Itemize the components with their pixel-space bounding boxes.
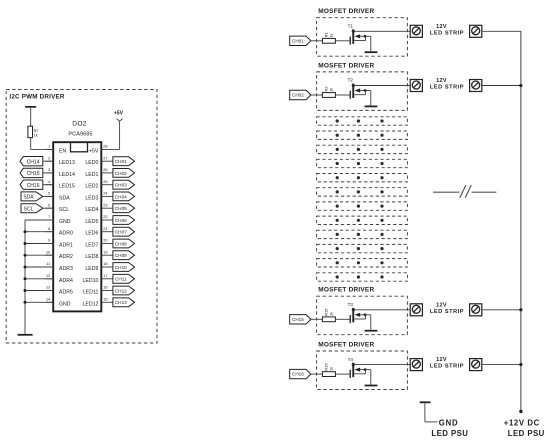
wire: +5V to pin 28 [101,121,119,149]
connector CH07 [113,227,135,236]
wire: pin 7 GND to bus corner [25,219,53,221]
pin 7 stub wire [45,219,53,221]
pin 8 stub wire [45,231,53,233]
pin 25 stub wire [101,184,113,186]
value label R7 1k [34,129,39,137]
transistor T4 (N-MOSFET) [348,357,367,378]
pin 27 stub wire [101,160,113,162]
wire: CH16 to resistor R16 [311,373,323,375]
connector CH16 [20,180,43,189]
svg-text:LED9: LED9 [85,266,98,272]
ellipsis dots (omitted block 9) [336,233,384,236]
pin 20 stub wire [101,243,113,245]
svg-text:2: 2 [48,156,50,160]
svg-text:SCL: SCL [24,206,34,212]
svg-text:9: 9 [48,239,50,243]
svg-text:27: 27 [103,156,107,160]
wire: source of T4 to ground [365,370,371,385]
connector CH05 [113,204,135,213]
ground terminal (LED PSU GND) [420,401,431,403]
wire: CH16 to pin 4 [43,184,53,186]
pin 11 stub wire [45,266,53,268]
svg-text:ADR3: ADR3 [59,266,73,272]
connector CH11 [113,274,135,283]
svg-text:12V: 12V [436,357,447,363]
screw terminal (+12V, T1) [470,25,482,37]
svg-text:1k: 1k [330,367,334,371]
IC notch [71,142,88,152]
ground (T2 source) [365,106,378,108]
label 12V LED STRIP (T3) [430,302,464,315]
ellipsis dots (omitted block 4) [336,162,384,165]
svg-text:ADR2: ADR2 [59,254,73,260]
svg-text:LED7: LED7 [85,243,98,249]
pin 21 stub wire [101,231,113,233]
svg-text:T4: T4 [348,357,354,362]
connector SCL [21,204,43,213]
enclosure: omitted MOSFET driver block 12 (collapsed) [317,273,408,281]
pin 16 stub wire [101,290,113,292]
ellipsis dots (omitted block 12) [336,275,384,278]
svg-text:6: 6 [48,203,50,207]
svg-text:GND: GND [59,301,71,307]
pin 22 stub wire [101,219,113,221]
label +12V DC LED PSU [504,419,545,438]
wire: bus stub to pin 9 [25,243,53,245]
enclosure: omitted MOSFET driver block 6 (collapsed) [317,188,408,196]
pin 5 stub wire [45,195,53,197]
svg-text:LED PSU: LED PSU [431,429,468,438]
svg-text:MOSFET DRIVER: MOSFET DRIVER [318,8,374,15]
connector CH03 [113,180,135,189]
wire: bus stub to pin 12 [25,278,53,280]
svg-text:SDA: SDA [23,195,34,201]
svg-text:7: 7 [48,215,50,219]
svg-text:LED STRIP: LED STRIP [430,30,464,36]
svg-text:LED PSU: LED PSU [508,429,545,438]
svg-text:LED STRIP: LED STRIP [430,364,464,370]
wire: drain of T4 to output terminal [353,364,410,366]
enclosure: omitted MOSFET driver block 10 (collapsed) [317,244,408,252]
svg-text:21: 21 [103,227,107,231]
ground (address bus) [18,334,33,336]
wire: CH01 to resistor R1 [311,40,323,42]
wire: drain of T1 to output terminal [353,30,410,32]
label 12V LED STRIP (T1) [430,24,464,37]
enclosure: omitted MOSFET driver block 4 (collapsed) [317,159,408,167]
wire: +12V terminal to rail (T4) [482,364,521,366]
wire: resistor R16 to gate of T4 [335,373,350,375]
svg-text:I2C PWM DRIVER: I2C PWM DRIVER [9,93,65,100]
wire: address bus vertical [24,220,26,334]
wire: source of T3 to ground [365,315,371,330]
label 12V LED STRIP (T2) [430,78,464,91]
svg-text:CH04: CH04 [115,194,127,199]
svg-text:LED13: LED13 [59,160,75,166]
svg-text:23: 23 [103,203,107,207]
pin 13 stub wire [45,290,53,292]
svg-text:LED5: LED5 [85,219,98,225]
value label R15 1k [324,308,334,316]
enclosure: MOSFET driver T4 dashed box [317,351,408,390]
svg-text:CH14: CH14 [27,159,40,165]
value label R2 1k [324,86,334,92]
enclosure: omitted MOSFET driver block 3 (collapsed) [317,145,408,153]
enclosure: omitted MOSFET driver block 8 (collapsed) [317,216,408,224]
pin 18 stub wire [101,266,113,268]
svg-text:ADR0: ADR0 [59,231,73,237]
svg-text:14: 14 [46,297,50,301]
connector CH01 [113,157,135,166]
pin 1 stub wire [45,148,53,150]
svg-text:CH16: CH16 [27,183,40,189]
svg-text:11: 11 [46,262,50,266]
enclosure: omitted MOSFET driver block 7 (collapsed) [317,202,408,210]
pin 10 stub wire [45,254,53,256]
node +12V DC (rail end) [519,410,522,413]
ground (T3 source) [365,330,378,332]
enclosure: MOSFET driver T3 dashed box [317,296,408,335]
svg-text:18: 18 [103,262,107,266]
svg-text:LED12: LED12 [83,301,99,307]
pin 24 stub wire [101,195,113,197]
svg-text:LED0: LED0 [85,160,98,166]
ellipsis dots (omitted block 10) [336,247,384,250]
svg-text:17: 17 [103,274,107,278]
ground (T1 source) [365,51,378,53]
svg-text:12: 12 [46,274,50,278]
svg-text:26: 26 [103,168,107,172]
svg-text:CH03: CH03 [115,183,127,188]
wire: PSU GND [425,403,438,422]
ellipsis dots (omitted block 1) [336,119,384,122]
junction: T3 branch on +12V rail [519,308,522,311]
resistor R1 [322,38,335,43]
screw terminal (LED strip -, T2) [410,80,422,92]
connector CH12 [113,286,135,295]
wire: SCL to pin 6 [43,207,53,209]
wire: +12V rail [520,31,522,411]
wire: bus stub to pin 13 [25,290,53,292]
svg-text:LED1: LED1 [85,172,98,178]
svg-text:1k: 1k [330,312,334,316]
wire: bus stub to pin 11 [25,266,53,268]
wire: CH14 to pin 2 [43,160,53,162]
wire: CH15 to resistor R15 [311,318,323,320]
svg-text:CH15: CH15 [292,317,304,322]
pin 3 stub wire [45,172,53,174]
junction at pin 13 bus [24,289,27,292]
wire break symbol (omitted channels) [433,185,496,198]
svg-text:PCA9685: PCA9685 [68,132,92,138]
value label R1 1k [324,32,334,38]
svg-text:R1: R1 [324,32,329,38]
connector CH01 [290,36,311,45]
transistor T3 (N-MOSFET) [348,302,367,323]
svg-text:ADR1: ADR1 [59,243,73,249]
svg-text:4: 4 [48,180,50,184]
svg-text:MOSFET DRIVER: MOSFET DRIVER [318,62,374,69]
connector SDA [21,192,43,201]
wire: CH15 to pin 3 [43,172,53,174]
svg-text:CH08: CH08 [115,241,127,246]
pin 15 stub wire [101,301,113,303]
svg-text:SDA: SDA [59,195,70,201]
svg-text:CH10: CH10 [115,265,127,270]
label GND LED PSU [431,419,468,438]
svg-text:+5V: +5V [114,111,124,117]
svg-text:DO2: DO2 [72,120,86,127]
svg-text:LED STRIP: LED STRIP [430,85,464,91]
svg-text:LED3: LED3 [85,195,98,201]
connector CH02 [113,169,135,178]
power tap bar (R7 pull-up supply) [25,106,36,108]
svg-text:28: 28 [103,145,107,149]
ground (T4 source) [365,385,378,387]
svg-text:CH16: CH16 [292,372,304,377]
ellipsis dots (omitted block 2) [336,134,384,137]
svg-text:13: 13 [46,286,50,290]
enclosure: I2C PWM driver dashed box [6,90,157,344]
wire: +12V terminal to rail (T3) [482,309,521,311]
svg-text:+5V: +5V [89,148,99,154]
svg-text:CH02: CH02 [292,93,304,98]
screw terminal (LED strip -, T3) [410,304,422,316]
connector CH15 [20,168,43,177]
svg-text:CH01: CH01 [115,159,127,164]
svg-text:20: 20 [103,239,107,243]
connector CH09 [113,251,135,260]
junction: T4 branch on +12V rail [519,363,522,366]
connector CH04 [113,192,135,201]
ellipsis dots (omitted block 11) [336,261,384,264]
screw terminal (+12V, T4) [470,359,482,371]
pin 17 stub wire [101,278,113,280]
enclosure: omitted MOSFET driver block 9 (collapsed) [317,230,408,238]
svg-text:25: 25 [103,180,107,184]
svg-text:LED STRIP: LED STRIP [430,309,464,315]
pin 26 stub wire [101,172,113,174]
wire: bus stub to pin 8 [25,231,53,233]
connector CH10 [113,263,135,272]
svg-text:1: 1 [48,145,50,149]
ellipsis dots (omitted block 3) [336,148,384,151]
pin 14 stub wire [45,301,53,303]
resistor R2 [322,93,335,98]
screw terminal (+12V, T2) [470,80,482,92]
resistor R16 [322,372,335,377]
wire: resistor R1 to gate of T1 [335,40,350,42]
svg-text:MOSFET DRIVER: MOSFET DRIVER [318,342,374,349]
enclosure: omitted MOSFET driver block 11 (collapsed) [317,259,408,267]
wire: source of T2 to ground [365,91,371,106]
screw terminal (LED strip -, T4) [410,359,422,371]
+5V supply symbol [114,111,124,122]
svg-text:CH07: CH07 [115,230,127,235]
svg-text:ADR4: ADR4 [59,278,73,284]
transistor T2 (N-MOSFET) [348,78,367,99]
IC DO2 PCA9685 body [53,142,101,311]
wire: supply bar to R7 [30,108,32,127]
svg-text:CH06: CH06 [115,218,127,223]
enclosure: omitted MOSFET driver block 1 (collapsed) [317,117,408,125]
junction at pin 9 bus [24,242,27,245]
svg-text:15: 15 [103,297,107,301]
wire: +12V terminal to rail (T2) [482,85,521,87]
wire: bus stub to pin 14 [25,301,53,303]
svg-text:24: 24 [103,192,107,196]
wire: bus stub to pin 10 [25,254,53,256]
svg-text:12V: 12V [436,24,447,30]
svg-text:CH09: CH09 [115,253,127,258]
svg-text:CH13: CH13 [115,300,127,305]
wire: resistor R15 to gate of T3 [335,318,350,320]
junction at pin 11 bus [24,266,27,269]
svg-text:16: 16 [103,286,107,290]
svg-text:LED4: LED4 [85,207,98,213]
svg-text:CH02: CH02 [115,171,127,176]
resistor R7 [28,126,33,137]
junction at pin 10 bus [24,254,27,257]
svg-text:+12V DC: +12V DC [504,419,540,428]
svg-text:1k: 1k [330,88,334,92]
svg-text:EN: EN [59,148,66,154]
connector CH02 [290,90,311,99]
svg-text:3: 3 [48,168,50,172]
wire: CH02 to resistor R2 [311,94,323,96]
svg-text:R16: R16 [324,363,329,371]
transistor T1 (N-MOSFET) [348,24,367,45]
svg-text:CH05: CH05 [115,206,127,211]
label 12V LED STRIP (T4) [430,357,464,370]
svg-text:R15: R15 [324,308,329,316]
wire: +12V terminal to rail (T1) [482,30,521,32]
pin 4 stub wire [45,184,53,186]
svg-text:CH12: CH12 [115,288,127,293]
pin 9 stub wire [45,243,53,245]
svg-text:CH01: CH01 [292,38,304,43]
enclosure: MOSFET driver T2 dashed box [317,72,408,111]
svg-text:LED2: LED2 [85,184,98,190]
svg-text:19: 19 [103,250,107,254]
ellipsis dots (omitted block 8) [336,219,384,222]
screw terminal (+12V, T3) [470,304,482,316]
junction at pin 14 bus [24,301,27,304]
enclosure: MOSFET driver T1 dashed box [317,18,408,57]
screw terminal (LED strip -, T1) [410,25,422,37]
junction: T2 branch on +12V rail [519,84,522,87]
pin 19 stub wire [101,254,113,256]
junction at pin 12 bus [24,277,27,280]
connector CH14 [20,157,43,166]
pin 2 stub wire [45,160,53,162]
svg-text:22: 22 [103,215,107,219]
ellipsis dots (omitted block 6) [336,190,384,193]
ellipsis dots (omitted block 5) [336,176,384,179]
svg-text:GND: GND [439,419,459,428]
svg-text:12V: 12V [436,302,447,308]
enclosure: omitted MOSFET driver block 2 (collapsed) [317,131,408,139]
enclosure: omitted MOSFET driver block 5 (collapsed) [317,174,408,182]
junction at pin 8 bus [24,230,27,233]
connector CH13 [113,298,135,307]
ellipsis dots (omitted block 7) [336,205,384,208]
svg-text:LED10: LED10 [83,278,99,284]
connector CH06 [113,216,135,225]
svg-text:8: 8 [48,227,50,231]
resistor R15 [322,317,335,322]
connector CH16 [290,369,311,378]
svg-text:1k: 1k [34,133,38,137]
svg-text:ADR5: ADR5 [59,290,73,296]
pin 6 stub wire [45,207,53,209]
wire: resistor R2 to gate of T2 [335,94,350,96]
svg-text:T1: T1 [348,24,354,29]
svg-text:T2: T2 [348,78,354,83]
svg-text:CH11: CH11 [115,277,127,282]
pin 12 stub wire [45,278,53,280]
connector CH15 [290,315,311,324]
svg-text:10: 10 [46,250,50,254]
svg-text:LED8: LED8 [85,254,98,260]
wire: source of T1 to ground [365,36,371,51]
svg-text:12V: 12V [436,78,447,84]
connector CH08 [113,239,135,248]
svg-text:MOSFET DRIVER: MOSFET DRIVER [318,287,374,294]
svg-text:1k: 1k [330,33,334,37]
svg-text:T3: T3 [348,302,354,307]
svg-text:LED11: LED11 [83,290,99,296]
value label R16 1k [324,363,334,371]
svg-text:CH15: CH15 [27,171,40,177]
pin 23 stub wire [101,207,113,209]
wire: drain of T3 to output terminal [353,309,410,311]
svg-text:5: 5 [48,192,50,196]
wire: R7 to pin 1 (EN) [31,138,54,150]
svg-text:GND: GND [59,219,71,225]
svg-text:LED15: LED15 [59,184,75,190]
svg-text:LED6: LED6 [85,231,98,237]
wire: drain of T2 to output terminal [353,85,410,87]
wire: SDA to pin 5 [43,195,53,197]
svg-text:SCL: SCL [59,207,69,213]
svg-text:LED14: LED14 [59,172,75,178]
svg-text:R2: R2 [324,86,329,92]
